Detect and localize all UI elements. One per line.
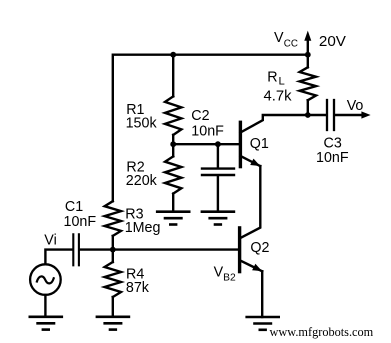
svg-text:20V: 20V — [319, 33, 347, 50]
svg-text:R: R — [267, 70, 277, 86]
svg-text:4.7k: 4.7k — [264, 89, 293, 105]
svg-text:www.mfgrobots.com: www.mfgrobots.com — [270, 325, 374, 339]
svg-text:V: V — [274, 30, 284, 46]
svg-text:10nF: 10nF — [64, 214, 97, 230]
svg-text:C2: C2 — [191, 108, 209, 124]
svg-text:10nF: 10nF — [191, 124, 224, 140]
svg-text:C1: C1 — [65, 199, 83, 215]
svg-text:Q2: Q2 — [250, 240, 269, 256]
svg-text:1Meg: 1Meg — [125, 220, 161, 236]
svg-text:V: V — [214, 264, 224, 280]
svg-text:87k: 87k — [126, 280, 150, 296]
svg-text:Vi: Vi — [44, 233, 56, 249]
svg-text:10nF: 10nF — [316, 150, 349, 166]
svg-text:Vo: Vo — [347, 98, 364, 114]
svg-text:CC: CC — [284, 39, 298, 50]
svg-text:B2: B2 — [223, 273, 236, 284]
svg-text:C3: C3 — [324, 135, 342, 151]
svg-text:150k: 150k — [126, 116, 158, 132]
svg-text:Q1: Q1 — [250, 136, 269, 152]
svg-text:L: L — [279, 76, 285, 88]
svg-text:220k: 220k — [126, 173, 158, 189]
